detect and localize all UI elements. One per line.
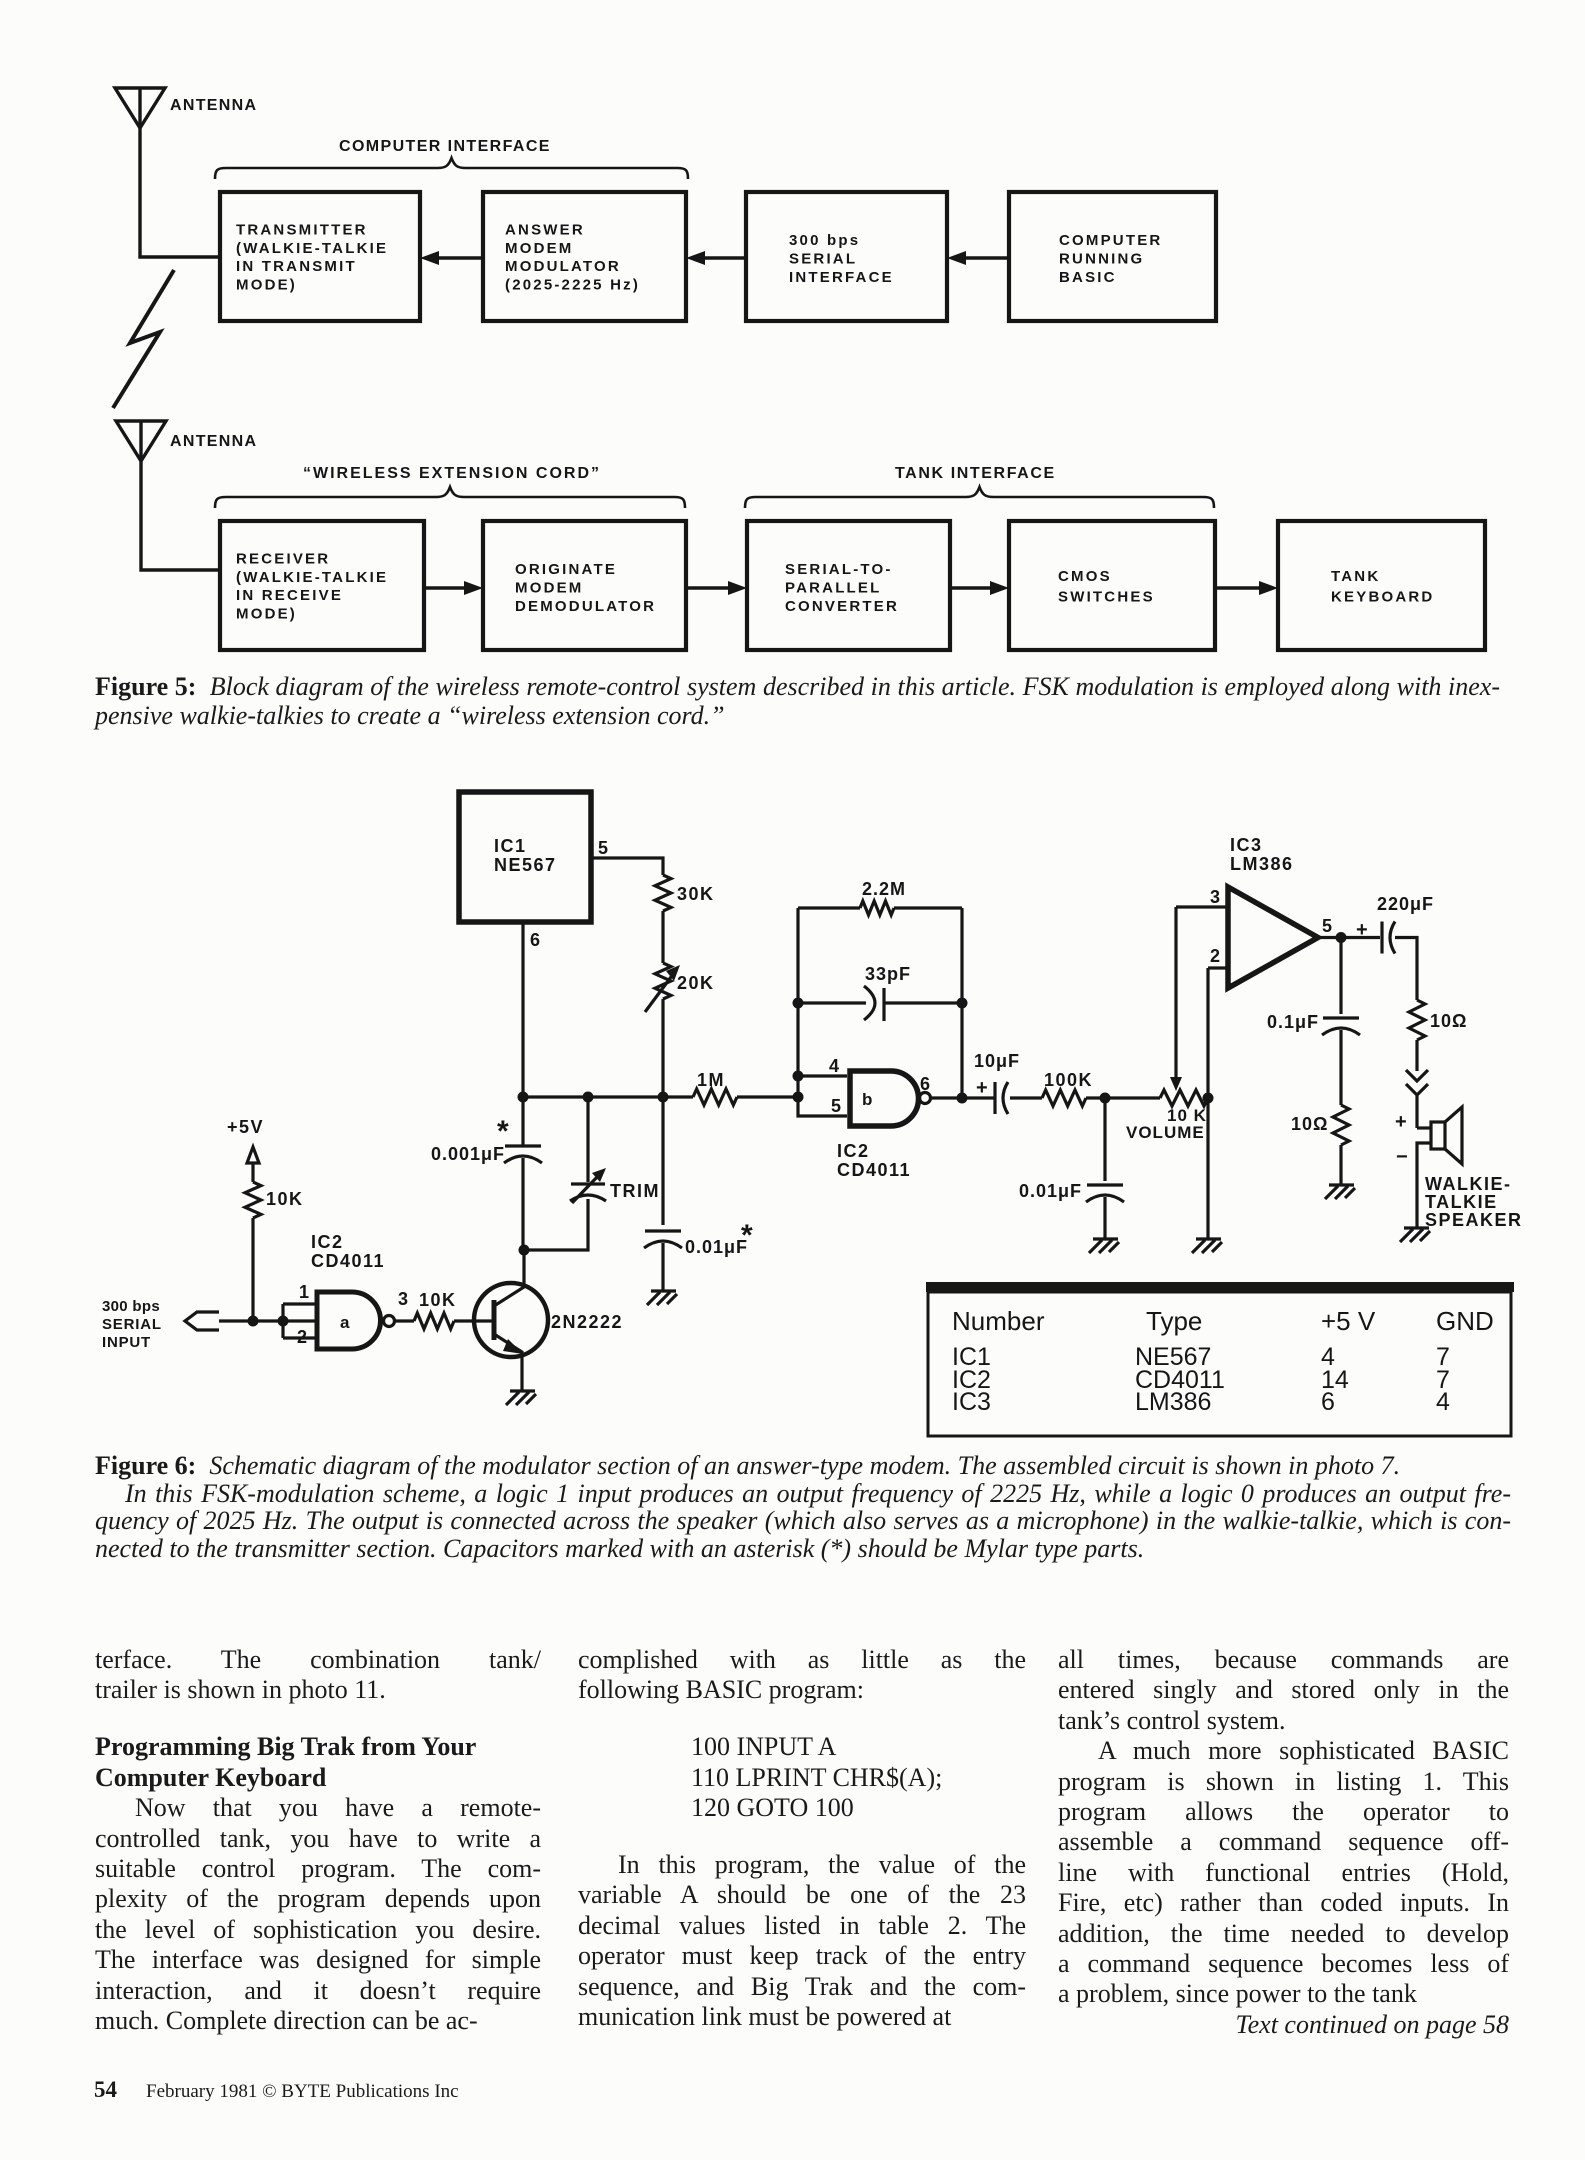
svg-text:GND: GND [1436,1306,1494,1336]
svg-text:5: 5 [598,838,608,858]
svg-text:2: 2 [297,1327,307,1347]
svg-text:1M: 1M [697,1070,725,1090]
svg-text:ANSWER: ANSWER [505,222,585,239]
svg-text:0.01μF: 0.01μF [685,1237,748,1257]
svg-text:IC1: IC1 [494,836,527,856]
svg-text:IN RECEIVE: IN RECEIVE [236,587,343,604]
svg-text:3: 3 [398,1289,408,1309]
svg-text:ORIGINATE: ORIGINATE [515,561,617,578]
svg-text:DEMODULATOR: DEMODULATOR [515,598,656,615]
svg-text:Type: Type [1146,1306,1202,1336]
svg-text:+5V: +5V [227,1117,264,1137]
svg-text:VOLUME: VOLUME [1126,1123,1205,1142]
svg-text:10Ω: 10Ω [1291,1114,1328,1134]
svg-text:COMPUTER: COMPUTER [1059,232,1162,249]
svg-text:2.2M: 2.2M [862,879,906,899]
svg-text:10K: 10K [419,1290,457,1310]
svg-text:1: 1 [299,1282,309,1302]
svg-text:6: 6 [1321,1388,1335,1416]
svg-text:6: 6 [530,930,540,950]
svg-text:WALKIE-: WALKIE- [1425,1174,1512,1194]
svg-text:b: b [862,1090,872,1109]
svg-text:10μF: 10μF [974,1051,1020,1071]
svg-text:SWITCHES: SWITCHES [1058,588,1155,605]
svg-text:+: + [976,1077,988,1099]
svg-text:BASIC: BASIC [1059,269,1117,286]
svg-text:0.01μF: 0.01μF [1019,1181,1082,1201]
svg-text:SERIAL-TO-: SERIAL-TO- [785,561,893,578]
svg-text:CONVERTER: CONVERTER [785,598,899,615]
svg-text:4: 4 [829,1056,839,1076]
svg-text:IC3: IC3 [952,1388,991,1416]
svg-text:3: 3 [1210,887,1220,907]
svg-text:IC2: IC2 [311,1232,344,1252]
svg-text:(WALKIE-TALKIE: (WALKIE-TALKIE [236,240,388,257]
svg-text:5: 5 [1322,916,1332,936]
svg-text:+: + [1395,1111,1407,1133]
svg-text:4: 4 [1436,1388,1450,1416]
svg-text:30K: 30K [677,884,715,904]
svg-text:CD4011: CD4011 [837,1160,911,1180]
svg-text:2: 2 [1210,946,1220,966]
svg-text:10K: 10K [266,1189,304,1209]
svg-text:SERIAL: SERIAL [102,1316,162,1333]
svg-text:IC3: IC3 [1230,835,1263,855]
svg-text:KEYBOARD: KEYBOARD [1331,588,1434,605]
svg-text:MODEM: MODEM [515,580,584,597]
svg-text:CMOS: CMOS [1058,568,1112,585]
svg-text:*: * [741,1219,753,1252]
svg-text:6: 6 [920,1074,930,1094]
svg-text:TRIM: TRIM [610,1181,660,1201]
svg-text:100K: 100K [1044,1070,1093,1090]
svg-text:300 bps: 300 bps [102,1298,160,1315]
svg-text:INPUT: INPUT [102,1334,151,1351]
svg-text:Number: Number [952,1306,1045,1336]
svg-text:a: a [340,1313,350,1332]
svg-text:ANTENNA: ANTENNA [170,433,257,450]
svg-text:ANTENNA: ANTENNA [170,97,257,114]
svg-text:PARALLEL: PARALLEL [785,580,881,597]
svg-text:SPEAKER: SPEAKER [1425,1210,1523,1230]
svg-text:20K: 20K [677,973,715,993]
svg-text:MODE): MODE) [236,276,297,293]
svg-text:RECEIVER: RECEIVER [236,551,330,568]
svg-text:TANK INTERFACE: TANK INTERFACE [895,465,1056,482]
svg-text:TALKIE: TALKIE [1425,1192,1498,1212]
svg-text:CD4011: CD4011 [311,1251,385,1271]
svg-text:TRANSMITTER: TRANSMITTER [236,222,368,239]
svg-text:MODE): MODE) [236,605,297,622]
svg-text:MODEM: MODEM [505,240,574,257]
svg-text:0.1μF: 0.1μF [1267,1012,1319,1032]
svg-text:+5 V: +5 V [1321,1306,1376,1336]
svg-text:SERIAL: SERIAL [789,251,857,268]
svg-text:33pF: 33pF [865,964,911,984]
svg-text:300 bps: 300 bps [789,232,860,249]
svg-text:NE567: NE567 [494,855,557,875]
svg-text:0.001μF: 0.001μF [431,1144,505,1164]
svg-text:5: 5 [831,1096,841,1116]
svg-text:2N2222: 2N2222 [551,1312,623,1332]
svg-text:10Ω: 10Ω [1430,1011,1467,1031]
svg-text:“WIRELESS EXTENSION CORD”: “WIRELESS EXTENSION CORD” [303,465,601,482]
svg-text:220μF: 220μF [1377,894,1434,914]
svg-text:+: + [1356,919,1368,941]
svg-text:TANK: TANK [1331,568,1380,585]
svg-text:IC2: IC2 [837,1141,870,1161]
svg-text:*: * [497,1115,509,1148]
svg-text:−: − [1396,1146,1408,1168]
svg-text:IN TRANSMIT: IN TRANSMIT [236,258,357,275]
svg-text:(WALKIE-TALKIE: (WALKIE-TALKIE [236,569,388,586]
svg-text:(2025-2225 Hz): (2025-2225 Hz) [505,276,640,293]
svg-text:LM386: LM386 [1230,854,1294,874]
svg-text:COMPUTER INTERFACE: COMPUTER INTERFACE [339,138,551,155]
svg-text:LM386: LM386 [1135,1388,1211,1416]
svg-text:MODULATOR: MODULATOR [505,258,621,275]
svg-text:RUNNING: RUNNING [1059,251,1144,268]
svg-text:INTERFACE: INTERFACE [789,269,894,286]
